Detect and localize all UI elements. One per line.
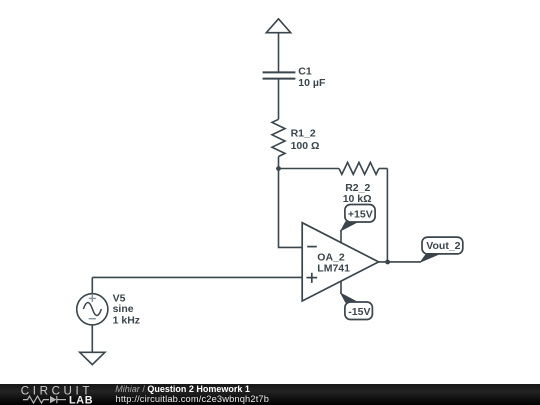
resistor R2_2: [339, 162, 379, 174]
wire node A down to inverting input: [279, 169, 303, 248]
op-amp OA_2: [302, 223, 378, 301]
ground: [80, 352, 105, 364]
wire V5 to ground: [91, 325, 93, 352]
svg-text:100 Ω: 100 Ω: [291, 140, 320, 152]
label 100 Ohm: [291, 140, 320, 152]
footer bar: [0, 384, 540, 405]
svg-text:10 µF: 10 µF: [298, 77, 326, 89]
footer logo resistor-diode squiggle: [23, 396, 66, 403]
V5 plus sign: [89, 295, 96, 302]
svg-text:Mihiar / Question 2 Homework 1: Mihiar / Question 2 Homework 1: [115, 384, 250, 394]
power flag +15V tail: [341, 222, 358, 231]
label sine: [113, 303, 134, 315]
label R2_2: [345, 182, 370, 194]
svg-text:C1: C1: [298, 65, 312, 77]
wire op-amp output: [379, 261, 421, 263]
label +15V: [348, 208, 373, 220]
op-amp plus input sign: [307, 273, 318, 283]
wire non-inverting input: [92, 276, 302, 278]
wire VCC to C1: [278, 33, 280, 73]
label OA_2: [317, 252, 345, 264]
wire R2_2 to feedback corner: [379, 168, 388, 170]
wire feedback vertical: [386, 169, 388, 262]
voltage source V5: [77, 294, 108, 325]
label 10 uF: [298, 77, 326, 89]
capacitor C1: [263, 72, 296, 78]
svg-text:+15V: +15V: [348, 208, 373, 220]
op-amp V+ pin stub: [340, 230, 342, 243]
power flag +15V box: [345, 205, 375, 223]
svg-text:sine: sine: [113, 303, 134, 315]
svg-text:R2_2: R2_2: [345, 182, 370, 194]
op-amp V- pin stub: [340, 281, 342, 295]
power flag -15V box: [345, 302, 373, 320]
node flag Vout_2 tail: [421, 254, 440, 262]
footer url line: [116, 394, 270, 404]
svg-text:LAB: LAB: [69, 394, 93, 405]
svg-text:R1_2: R1_2: [291, 127, 316, 139]
label 10 kOhm: [343, 193, 372, 205]
footer logo CIRCUIT: [21, 384, 93, 397]
wire node A to R2_2: [279, 168, 340, 170]
label V5: [113, 293, 126, 305]
V5 minus sign: [89, 318, 96, 320]
label -15V: [348, 306, 370, 318]
svg-text:1 kHz: 1 kHz: [113, 315, 140, 327]
label C1: [298, 65, 312, 77]
power flag VCC (top): [266, 19, 290, 33]
resistor R1_2: [272, 119, 285, 156]
label 1 kHz: [113, 315, 140, 327]
label Vout_2: [426, 240, 460, 252]
op-amp minus input sign: [307, 246, 317, 248]
node flag Vout_2 box: [422, 237, 463, 254]
wire C1 to R1_2: [278, 79, 280, 120]
wire R1_2 to node A: [278, 157, 280, 169]
svg-text:-15V: -15V: [348, 306, 370, 318]
wire V5 top: [91, 278, 93, 294]
footer logo LAB: [69, 394, 93, 405]
footer title line: [115, 384, 250, 394]
svg-text:Vout_2: Vout_2: [426, 240, 460, 252]
label R1_2: [291, 127, 316, 139]
label LM741: [317, 263, 350, 275]
svg-text:LM741: LM741: [317, 263, 350, 275]
svg-text:http://circuitlab.com/c2e3wbnq: http://circuitlab.com/c2e3wbnqh2t7b: [116, 394, 270, 404]
svg-text:10 kΩ: 10 kΩ: [343, 193, 372, 205]
node A junction dot: [276, 166, 281, 171]
power flag -15V tail: [341, 294, 358, 303]
node output junction dot: [385, 260, 390, 265]
